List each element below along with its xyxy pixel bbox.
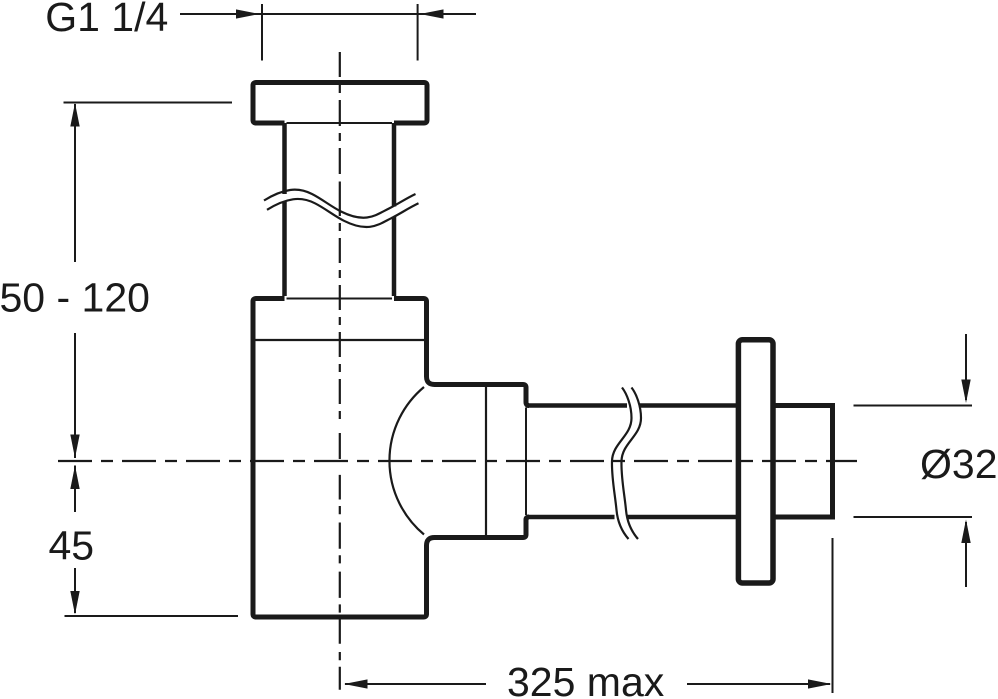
pipe break wavy line lower (267, 199, 419, 227)
inlet pipe left edge (with break gap) (282, 123, 287, 296)
50-120 dimension line upper (74, 104, 76, 262)
325 max dimension line right (687, 683, 830, 685)
325 max left arrow (344, 679, 368, 688)
G1 1/4 dimension line (180, 13, 476, 15)
wall flange (738, 340, 773, 583)
svg-text:50 - 120: 50 - 120 (0, 275, 150, 321)
horizontal tube bottom edge (gap for break) (527, 515, 739, 520)
tube break wavy line right (621, 388, 641, 540)
tube break wavy line left (612, 388, 632, 540)
45 bottom extension line (65, 615, 239, 617)
45 dimension line upper (74, 466, 76, 513)
outlet pipe after flange (773, 406, 833, 518)
diameter 32 upper arrowhead (961, 380, 970, 404)
horizontal centerline (58, 460, 857, 462)
svg-text:Ø32: Ø32 (920, 441, 998, 487)
50-120 bottom arrow (70, 435, 79, 459)
45 top arrow (70, 466, 79, 490)
body cap joint line (253, 339, 427, 341)
svg-text:G1 1/4: G1 1/4 (45, 0, 168, 40)
G1 1/4 left arrow (236, 9, 260, 18)
325 max right extension line (832, 538, 834, 693)
50-120 top arrow (70, 103, 79, 127)
diameter 32 bottom extension line (854, 516, 973, 518)
diameter 32 upper arrow line (965, 334, 967, 400)
top nut (inlet union nut) (253, 83, 427, 124)
step joint line across tube (525, 408, 527, 516)
vertical centerline (339, 52, 341, 690)
50-120 dimension line lower (74, 333, 76, 458)
outlet joint line (485, 387, 487, 536)
diameter 32 lower arrowhead (961, 520, 970, 544)
body top-right and outlet upper step (394, 299, 529, 406)
svg-text:325 max: 325 max (507, 659, 665, 699)
G1 1/4 left extension line (261, 4, 263, 61)
diameter 32 top extension line (854, 405, 973, 407)
trap bulb arc (389, 387, 424, 535)
50-120 top extension line (64, 102, 233, 104)
diameter 32 lower arrow line (965, 522, 967, 587)
325 max dimension line left (345, 683, 486, 685)
trap body (253, 299, 529, 618)
pipe break wavy line upper (264, 190, 416, 218)
nut bottom joint line across pipe (287, 122, 393, 124)
45 bottom arrow (70, 591, 79, 615)
G1 1/4 right arrow (420, 9, 444, 18)
body top joint line across pipe (287, 298, 393, 300)
horizontal tube top edge (gap for break) (527, 403, 739, 408)
325 max right arrow (808, 679, 832, 688)
G1 1/4 right extension line (417, 4, 419, 61)
inlet pipe right edge (with break gap) (392, 123, 397, 296)
45 dimension line lower (74, 568, 76, 613)
svg-text:45: 45 (49, 523, 95, 569)
